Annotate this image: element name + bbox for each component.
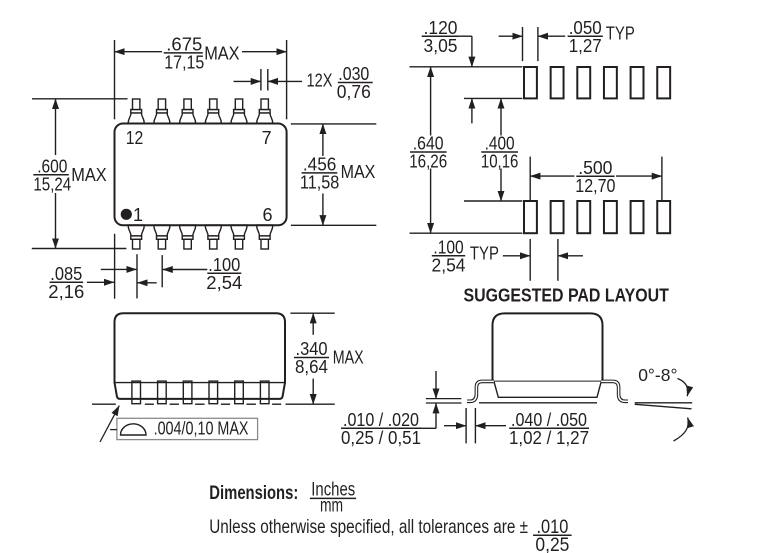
pad layout extension line bottom outer (410, 232, 523, 234)
dimension .675/17,15 MAX arrow left (115, 51, 163, 53)
side view seating plane line (dashed) (92, 403, 335, 405)
dimension .340 extension line top (290, 312, 334, 314)
top pin 8 lead (top row) (231, 99, 247, 124)
svg-text:6: 6 (262, 205, 272, 225)
pad layout bottom row pad 6 (657, 201, 670, 233)
dimension .500/12,70 text (575, 158, 615, 196)
angle arc arrow upper (678, 379, 688, 397)
svg-text:MAX: MAX (333, 348, 364, 368)
dimension .010/.020 arrow down (435, 371, 437, 399)
dimension .675/17,15 MAX extension line left (114, 40, 116, 119)
side view lead 6 (260, 381, 269, 404)
svg-text:.340: .340 (296, 339, 328, 359)
dimension .050/1,27 text (568, 18, 603, 56)
pad layout extension line bottom inner (464, 200, 522, 202)
dimension .100 TYP arrow left (503, 255, 530, 257)
top pin 9 lead (top row) (205, 99, 221, 124)
pad layout extension line top inner (464, 97, 522, 99)
svg-text:TYP: TYP (470, 244, 499, 264)
pad layout bottom row pad 5 (631, 201, 644, 233)
bottom pin 3 lead (bottom row) (180, 225, 196, 249)
svg-text:0,76: 0,76 (337, 82, 371, 102)
top pin 10 lead (top row) (180, 99, 196, 124)
svg-text:0°-8°: 0°-8° (638, 365, 677, 385)
dimension .120 arrow up (471, 98, 473, 123)
svg-text:.100: .100 (208, 255, 240, 275)
side view lead 5 (235, 381, 244, 404)
dimension .600 arrow up (55, 99, 57, 155)
top pin 12 lead (top row) (128, 99, 144, 124)
svg-text:MAX: MAX (71, 165, 106, 185)
dimension .640 arrow down (430, 169, 432, 234)
dimension .456 extension line top (291, 123, 376, 125)
svg-text:.640: .640 (413, 134, 444, 154)
pin 1 index dot (121, 209, 132, 220)
svg-text:7: 7 (262, 128, 272, 148)
svg-text:.675: .675 (166, 35, 202, 55)
svg-text:.100: .100 (433, 238, 463, 258)
svg-text:.085: .085 (50, 264, 82, 284)
end view left gull-wing lead (467, 381, 494, 401)
end view right gull-wing lead (601, 381, 628, 401)
tolerance .010/0,25 fraction (533, 516, 572, 553)
svg-text:MAX: MAX (341, 162, 376, 182)
dimension 12X .030 extension line left (260, 69, 262, 91)
dimension .085/2,16 text (48, 264, 84, 302)
dimension .456 arrow down (322, 194, 324, 226)
dimension .675/17,15 text (164, 35, 205, 73)
end view body lower flange (494, 382, 601, 398)
bottom pin 4 lead (bottom row) (205, 225, 221, 249)
bottom pin 2 lead (bottom row) (154, 225, 170, 249)
dimension .040/.050 extension line right (474, 408, 476, 443)
dimension .120/3,05 text (422, 18, 460, 56)
dimension .340 arrow down (312, 379, 314, 405)
dimension .640 arrow up (430, 67, 432, 136)
svg-text:2,54: 2,54 (206, 273, 242, 293)
dimension .400/10,16 text (481, 134, 519, 172)
side view package body (115, 313, 286, 399)
dimension .500 extension line right (661, 157, 663, 201)
dimension .400 arrow up (500, 98, 502, 135)
dimension .050 extension line right (537, 27, 539, 61)
pad layout top row pad 4 (604, 67, 617, 98)
dimension .340 arrow up (312, 313, 314, 335)
dimension .600 arrow down (55, 193, 57, 249)
end view package body (493, 313, 603, 381)
pad layout bottom row pad 1 (524, 201, 537, 233)
svg-text:.400: .400 (485, 134, 515, 154)
svg-text:.030: .030 (338, 64, 369, 84)
pad layout top row pad 3 (577, 67, 590, 98)
dimension .010/.020 leader tail (421, 427, 437, 429)
end view lead angle inclined line (635, 404, 692, 409)
dimension .085 arrow right (137, 282, 156, 284)
svg-text:SUGGESTED PAD LAYOUT: SUGGESTED PAD LAYOUT (464, 286, 669, 306)
dimension .456 arrow up (322, 124, 324, 156)
top pin 7 lead (top row) (257, 99, 273, 124)
dimension .456/11,58 text (300, 155, 339, 193)
flatness (seating plane) symbol (121, 424, 147, 435)
svg-text:.050: .050 (569, 18, 602, 38)
dimension .030/0,76 text (337, 64, 373, 102)
pad layout top row pad 6 (657, 67, 670, 98)
svg-text:15,24: 15,24 (33, 174, 71, 194)
flatness callout box (117, 418, 258, 439)
svg-text:16,26: 16,26 (409, 152, 447, 172)
dimension .085 extension line at pin 1 center (136, 254, 138, 298)
dimension .500 arrow right (616, 175, 662, 177)
svg-text:3,05: 3,05 (424, 36, 458, 56)
dimension .100 arrow right (163, 269, 208, 271)
pad layout bottom row pad 4 (604, 201, 617, 233)
svg-text:.004/0,10 MAX: .004/0,10 MAX (154, 418, 249, 438)
svg-text:17,15: 17,15 (164, 53, 204, 73)
dimension .340/8,64 text (294, 339, 329, 377)
dimension .400 arrow down (500, 169, 502, 202)
svg-text:TYP: TYP (606, 24, 635, 44)
dimension 12X .030 arrow left (234, 80, 261, 82)
side view body mold line (115, 382, 286, 384)
IC package top view body fill (115, 124, 287, 226)
pad layout top row pad 5 (631, 67, 644, 98)
dimension .120 leader horizontal (459, 35, 472, 37)
side view lead 4 (209, 381, 218, 404)
dimension .600 extension line bottom (32, 248, 127, 250)
svg-text:0,25: 0,25 (535, 534, 569, 553)
end view standoff reference line (upper left) (426, 398, 461, 400)
top pin 11 lead (top row) (154, 99, 170, 124)
dimension .120 leader arrow down (471, 36, 473, 67)
svg-text:.456: .456 (303, 155, 337, 175)
svg-text:12,70: 12,70 (575, 176, 615, 196)
side view lead 3 (183, 381, 192, 404)
bottom pin 5 lead (bottom row) (231, 225, 247, 249)
end view seating plane line center segment (479, 402, 597, 404)
svg-text:12: 12 (126, 128, 144, 148)
dimension .675/17,15 MAX arrow right (242, 51, 287, 53)
dimension .010/.020 over 0,25/0,51 text (341, 410, 421, 448)
svg-text:MAX: MAX (204, 43, 239, 63)
dimension .100 arrow left (101, 268, 137, 270)
dimension .040/.050 arrow right (475, 425, 506, 427)
side view lead 2 (158, 381, 167, 404)
dimension .100 extension line at pin 2 center (161, 255, 163, 287)
svg-text:mm: mm (320, 494, 343, 516)
svg-text:Unless otherwise specified, al: Unless otherwise specified, all toleranc… (209, 516, 528, 538)
dimension .050 arrow left (499, 35, 523, 37)
pad layout extension line top outer (410, 66, 523, 68)
dimension .010/.020 arrow up (435, 403, 437, 428)
svg-text:.500: .500 (578, 158, 612, 178)
IC package top view body outline (115, 124, 287, 226)
svg-text:0,25 / 0,51: 0,25 / 0,51 (341, 428, 421, 448)
dimension .050 arrow right (538, 35, 565, 37)
dimension .100/2,54 text (206, 255, 242, 293)
dimension .600/15,24 text (33, 156, 71, 194)
svg-text:2,16: 2,16 (48, 282, 84, 302)
Inches over mm fraction (310, 478, 356, 516)
pad layout bottom row pad 2 (551, 201, 564, 233)
pad layout bottom row pad 3 (577, 201, 590, 233)
bottom pin 1 lead (bottom row) (128, 225, 144, 249)
svg-text:11,58: 11,58 (300, 173, 339, 193)
svg-text:1,27: 1,27 (569, 36, 602, 56)
dimension .085 arrow left (87, 281, 114, 283)
side view lead 1 (132, 381, 141, 404)
dimension .100 TYP extension line left (529, 239, 531, 281)
dimension .040/.050 extension line left (465, 408, 467, 443)
svg-text:.010 / .020: .010 / .020 (343, 410, 419, 430)
angle arc arrow lower (674, 418, 689, 442)
svg-text:.600: .600 (37, 156, 67, 176)
end view seating plane line left segment (426, 402, 462, 404)
dimension .500 extension line left (529, 157, 531, 201)
dimension .040/.050 over 1,02/1,27 text (509, 410, 589, 448)
dimension .600 extension line top (32, 98, 128, 100)
svg-text:1: 1 (133, 205, 143, 225)
dimension .640/16,26 text (409, 134, 447, 172)
dimension .675/17,15 MAX extension line right (286, 40, 288, 119)
dimension .100 TYP arrow right (558, 255, 583, 257)
dimension .085 extension line at body edge (114, 234, 116, 299)
svg-text:.040 / .050: .040 / .050 (511, 410, 587, 430)
dimension .040/.050 arrow left (444, 425, 466, 427)
svg-text:.120: .120 (424, 18, 458, 38)
dimension .050 extension line left (522, 27, 524, 61)
bottom pin 6 lead (bottom row) (257, 225, 273, 249)
dimension .456 extension line bottom (291, 224, 376, 226)
svg-text:8,64: 8,64 (295, 357, 328, 377)
svg-text:2,54: 2,54 (432, 256, 466, 276)
dimension 12X .030 arrow right (268, 80, 302, 82)
pad layout top row pad 1 (524, 67, 537, 98)
pad layout top row pad 2 (551, 67, 564, 98)
end view angle reference line (635, 402, 693, 404)
svg-text:12X: 12X (307, 71, 333, 91)
dimension 12X .030 extension line right (267, 69, 269, 91)
svg-text:Dimensions:: Dimensions: (209, 482, 298, 504)
svg-text:1,02 / 1,27: 1,02 / 1,27 (509, 428, 589, 448)
dimension .500 arrow left (530, 175, 574, 177)
flatness leader arrow (100, 406, 119, 442)
svg-text:10,16: 10,16 (481, 152, 519, 172)
dimension .100 TYP extension line right (557, 239, 559, 281)
dimension .100/2,54 TYP fraction text (432, 238, 466, 276)
flatness leader stub (110, 429, 117, 431)
